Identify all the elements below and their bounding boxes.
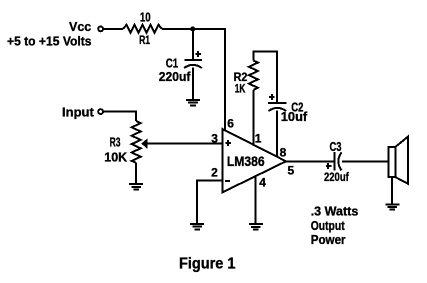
potentiometer R3: [132, 121, 141, 163]
svg-text:220uf: 220uf: [159, 69, 191, 84]
op-amp plus input mark: [226, 140, 232, 146]
wire C3 to speaker: [342, 160, 389, 162]
wire R2 to pin 1: [252, 90, 254, 145]
svg-text:2: 2: [211, 165, 218, 179]
wire pin 4 to ground: [255, 176, 257, 224]
svg-text:C3: C3: [330, 139, 342, 154]
wire C1 to ground: [192, 68, 194, 100]
svg-text:1: 1: [255, 131, 262, 145]
ground (R3): [129, 184, 143, 189]
svg-text:220uf: 220uf: [324, 170, 350, 184]
ground (pin 4): [249, 224, 263, 229]
svg-text:Figure 1: Figure 1: [179, 256, 236, 273]
ground (speaker): [385, 204, 399, 209]
capacitor C3: [326, 152, 342, 170]
svg-text:4: 4: [259, 175, 266, 189]
svg-text:1K: 1K: [235, 81, 246, 95]
wire speaker to ground: [391, 177, 393, 204]
resistor R1: [123, 25, 162, 33]
svg-text:6: 6: [227, 116, 234, 130]
ground (C1): [186, 100, 200, 105]
wire pin 5 output to C3: [286, 160, 334, 162]
svg-text:10uf: 10uf: [281, 109, 308, 124]
wire C2 to pin 8: [276, 110, 278, 156]
svg-text:Input: Input: [62, 105, 94, 120]
capacitor C1: [184, 51, 202, 68]
svg-text:Vcc: Vcc: [69, 19, 91, 34]
svg-text:Power: Power: [311, 232, 346, 247]
svg-text:Output: Output: [311, 218, 346, 233]
svg-text:10: 10: [140, 9, 151, 24]
svg-text:R3: R3: [110, 135, 121, 150]
resistor R2: [249, 61, 258, 91]
svg-text:+5 to +15 Volts: +5 to +15 Volts: [7, 34, 92, 49]
ground (pin 2): [190, 224, 204, 229]
wire pin 2 to ground: [197, 181, 222, 224]
wire R1 to corner and down to pin 6: [162, 29, 225, 131]
wire Input to R3: [104, 112, 136, 121]
svg-text:5: 5: [288, 164, 295, 178]
wire R2 top link to C2 top: [253, 51, 277, 101]
svg-text:10K: 10K: [104, 149, 127, 164]
op-amp minus input mark: [225, 180, 230, 182]
svg-text:8: 8: [280, 145, 287, 159]
wire R3 to ground: [135, 163, 137, 184]
svg-text:R1: R1: [139, 33, 150, 47]
wire junction to C1: [192, 29, 194, 59]
node junction at C1: [190, 26, 195, 31]
svg-text:3: 3: [211, 131, 218, 145]
op-amp U1 LM386 triangle: [223, 129, 287, 192]
terminal Input: [98, 109, 103, 114]
speaker SP1: [389, 137, 408, 184]
R3 wiper arrow: [141, 138, 147, 148]
terminal Vcc: [98, 27, 103, 32]
wire wiper to pin 3: [147, 143, 223, 145]
svg-text:.3 Watts: .3 Watts: [311, 203, 359, 218]
wire Vcc to R1: [104, 28, 123, 30]
svg-text:LM386: LM386: [227, 153, 265, 169]
capacitor C2: [268, 94, 286, 111]
